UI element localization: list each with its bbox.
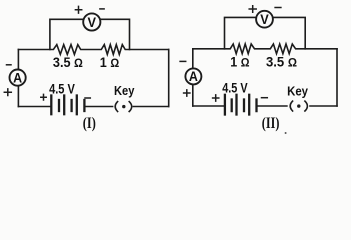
svg-text:A: A [189,69,198,84]
svg-text:V: V [260,12,269,27]
svg-text:(II): (II) [262,115,280,132]
svg-text:V: V [88,15,97,30]
svg-text:Key: Key [287,83,309,98]
svg-text:1 Ω: 1 Ω [230,53,249,69]
svg-text:A: A [13,70,22,85]
svg-text:3.5 Ω: 3.5 Ω [53,54,83,70]
svg-text:(I): (I) [83,115,96,132]
svg-text:4.5 V: 4.5 V [222,80,248,96]
svg-text:Key: Key [114,83,135,98]
svg-text:4.5 V: 4.5 V [49,81,75,97]
svg-text:3.5 Ω: 3.5 Ω [266,54,297,70]
svg-text:1 Ω: 1 Ω [100,54,120,70]
